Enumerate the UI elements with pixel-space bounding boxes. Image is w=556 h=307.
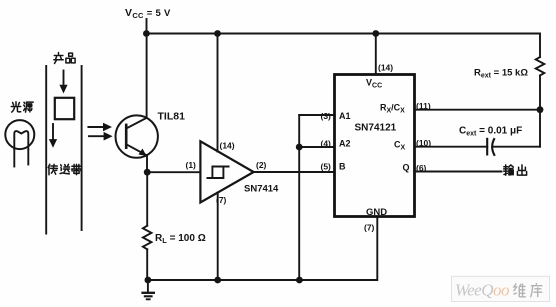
label 源 glyph: [24, 102, 34, 112]
light arrow 1: [88, 123, 112, 132]
wire Cx pin10: [415, 146, 488, 148]
capacitor Cext: [487, 138, 495, 156]
light arrow 2: [89, 132, 113, 141]
watermark box: [452, 276, 550, 301]
svg-text:VCC = 5 V: VCC = 5 V: [125, 7, 171, 20]
wire cap to Rext node: [493, 146, 541, 148]
wire 74121 Vcc pin14: [375, 34, 377, 75]
label 光 glyph: [11, 102, 20, 112]
svg-text:(7): (7): [364, 223, 375, 233]
wire A line vertical: [298, 115, 300, 280]
label output 出 glyph: [517, 165, 526, 175]
wire 7414 pin7: [217, 193, 219, 281]
svg-text:Q: Q: [403, 163, 410, 173]
lamp lead right: [27, 150, 29, 165]
svg-text:B: B: [339, 162, 346, 172]
belt motion arrow down: [49, 124, 57, 148]
belt line left: [45, 66, 47, 234]
wire bottom ground rail: [147, 217, 377, 281]
node dot A-line ground: [296, 277, 303, 284]
lamp lead left: [13, 150, 15, 167]
wire 7414 out to B: [254, 171, 335, 173]
op-amp U1 SN7414 schmitt inverter: [200, 141, 253, 202]
wire Rext to node: [539, 76, 541, 147]
transistor Q1 TIL81: [116, 115, 158, 157]
IC U2 SN74121 box: [335, 75, 415, 217]
wire Rx/Cx pin11: [415, 109, 541, 111]
svg-text:A2: A2: [339, 139, 351, 149]
svg-text:(3): (3): [321, 111, 332, 121]
belt line right: [81, 66, 83, 230]
lamp L1 circle: [5, 120, 34, 149]
svg-text:(14): (14): [378, 63, 393, 73]
ground symbol: [141, 280, 155, 299]
svg-text:(4): (4): [321, 139, 332, 149]
watermark 库 glyph: [530, 283, 542, 297]
node emitter junction dot: [144, 169, 151, 176]
label 带 glyph: [72, 164, 82, 174]
svg-text:(5): (5): [321, 162, 332, 172]
svg-text:(1): (1): [186, 160, 197, 170]
label 品 glyph: [66, 53, 75, 63]
svg-text:SN7414: SN7414: [244, 184, 279, 195]
wire collector drop: [146, 34, 148, 119]
wire Q output pin6: [415, 171, 502, 173]
svg-text:SN74121: SN74121: [355, 123, 397, 134]
resistor Rext: [536, 57, 545, 76]
wire A1: [299, 114, 334, 116]
svg-text:A1: A1: [339, 111, 351, 121]
svg-text:(7): (7): [216, 195, 227, 205]
wire VCC stub: [146, 19, 148, 34]
node junction dot Rext/Rx: [537, 106, 544, 113]
svg-text:(2): (2): [256, 160, 267, 170]
svg-text:(14): (14): [220, 141, 235, 151]
wire RL top: [146, 172, 148, 226]
wire 7414 pin14: [217, 34, 219, 152]
svg-text:GND: GND: [366, 207, 387, 218]
node junction dot above 74121: [372, 30, 379, 37]
resistor RL: [143, 226, 152, 250]
svg-text:TIL81: TIL81: [158, 111, 186, 123]
node junction dot above 7414: [214, 30, 221, 37]
wire A2: [299, 146, 334, 148]
product square: [55, 98, 74, 119]
hysteresis symbol: [207, 167, 230, 179]
lamp filament: [14, 131, 28, 150]
wire emitter to 7414 input: [147, 171, 200, 173]
svg-text:WeeQoo: WeeQoo: [455, 281, 509, 300]
wire emitter drop: [146, 156, 148, 173]
node dot ground-left: [145, 277, 152, 284]
wire top VCC rail: [145, 34, 540, 58]
label output 输 glyph: [504, 165, 514, 175]
label 产 glyph: [54, 53, 63, 64]
label 送 glyph: [60, 164, 69, 174]
node dot A2 junction: [296, 144, 303, 151]
node junction dot Vcc-left: [143, 30, 150, 37]
watermark 维 glyph: [513, 284, 525, 297]
wire RL bottom: [146, 249, 148, 280]
label 传 glyph: [48, 164, 57, 174]
node dot 7414 pin7: [214, 277, 221, 284]
product arrow down: [59, 71, 67, 94]
